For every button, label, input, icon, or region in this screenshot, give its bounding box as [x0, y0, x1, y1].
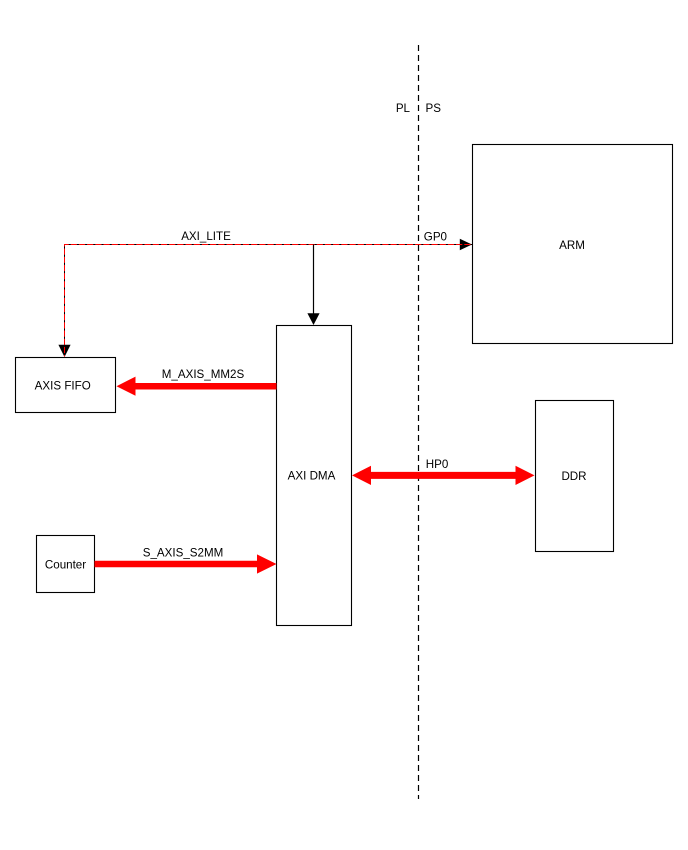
wire AXI_LITE red line (ARM to AXIS FIFO) — [65, 245, 473, 357]
arrowhead into AXI DMA — [307, 313, 319, 325]
svg-text:PS: PS — [426, 102, 442, 115]
svg-text:M_AXIS_MM2S: M_AXIS_MM2S — [162, 368, 245, 381]
arrowhead into ARM (GP0) — [460, 239, 472, 251]
svg-text:PL: PL — [396, 102, 411, 115]
svg-text:GP0: GP0 — [424, 231, 447, 244]
wire branch down to AXI DMA — [313, 245, 315, 314]
arrow HP0 (AXI DMA to DDR, bidirectional) — [352, 466, 535, 485]
svg-text:DDR: DDR — [561, 470, 586, 483]
block Counter — [37, 536, 95, 593]
block DDR — [536, 401, 614, 552]
svg-text:Counter: Counter — [45, 559, 86, 572]
arrow S_AXIS_S2MM (Counter to AXI DMA) — [95, 554, 277, 573]
arrowhead into AXIS FIFO — [58, 345, 70, 357]
svg-text:HP0: HP0 — [426, 458, 449, 471]
svg-text:S_AXIS_S2MM: S_AXIS_S2MM — [143, 547, 224, 560]
svg-text:AXI DMA: AXI DMA — [288, 470, 336, 483]
block ARM — [473, 145, 673, 344]
svg-text:ARM: ARM — [559, 239, 585, 252]
wire AXI_LITE black dash overlay — [65, 245, 473, 357]
svg-text:AXIS FIFO: AXIS FIFO — [35, 380, 91, 393]
block AXI DMA — [277, 326, 352, 626]
PL/PS boundary dashed line — [418, 45, 420, 799]
block AXIS FIFO — [16, 358, 116, 413]
svg-text:AXI_LITE: AXI_LITE — [181, 230, 231, 243]
arrow M_AXIS_MM2S (AXI DMA to AXIS FIFO) — [117, 377, 277, 396]
